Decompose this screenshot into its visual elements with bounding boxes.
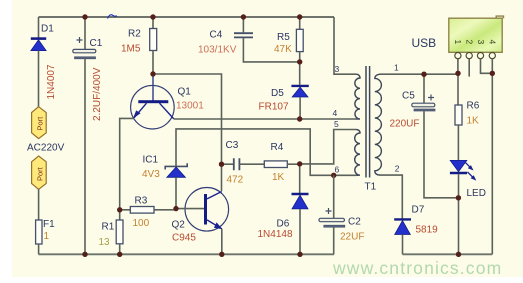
junction dot C3 tap xyxy=(219,162,224,167)
label AC220V xyxy=(27,143,65,154)
svg-text:C3: C3 xyxy=(226,140,239,151)
resistor R4 xyxy=(264,161,299,168)
junction dot LED bottom xyxy=(456,195,461,200)
svg-text:R3: R3 xyxy=(135,196,148,207)
svg-text:1N4148: 1N4148 xyxy=(258,229,293,240)
svg-text:C945: C945 xyxy=(172,233,196,244)
value 22UF xyxy=(340,232,364,243)
junction dot R3 right IC1 xyxy=(173,206,178,211)
value 472 xyxy=(227,175,244,186)
pin label 5 xyxy=(334,119,339,129)
wire top rail xyxy=(39,16,335,18)
label LED xyxy=(467,188,486,199)
label USB xyxy=(412,36,437,50)
svg-text:4: 4 xyxy=(333,108,338,118)
wire F1 to rail corner xyxy=(38,244,40,254)
pin label 6 xyxy=(335,165,340,175)
wire R6 top lead xyxy=(457,73,459,105)
svg-text:4V3: 4V3 xyxy=(142,169,160,180)
label Q2 xyxy=(172,220,186,231)
svg-text:13001: 13001 xyxy=(176,101,204,112)
svg-text:1K: 1K xyxy=(272,172,285,183)
USB pin circle 3 xyxy=(477,53,483,59)
capacitor C2 xyxy=(319,208,345,227)
resistor R1 xyxy=(116,220,123,244)
junction dot R4 right xyxy=(297,161,302,166)
value 1N4148 xyxy=(258,229,293,240)
resistor R6 xyxy=(455,105,462,125)
svg-text:R1: R1 xyxy=(102,222,115,233)
svg-text:C2: C2 xyxy=(348,217,361,228)
resistor R3 xyxy=(120,207,176,214)
svg-text:4: 4 xyxy=(488,40,498,45)
value 2.2UF/400V (rotated) xyxy=(92,67,103,121)
transformer T1 core xyxy=(366,66,370,178)
label R5 xyxy=(277,32,290,43)
value 4V3 xyxy=(142,169,160,180)
wire Q1 base node to Q2 collector column xyxy=(153,74,222,191)
value 103/1KV xyxy=(198,44,237,55)
transistor Q2 xyxy=(176,188,229,232)
USB pin digit 4 xyxy=(488,40,498,45)
zener IC1 xyxy=(165,163,187,177)
label IC1 xyxy=(143,155,159,166)
svg-text:3: 3 xyxy=(335,64,340,74)
wire USB pin1 lead xyxy=(457,59,459,74)
USB pin circle 4 xyxy=(489,53,495,59)
wire R4 node to transformer pin 5 xyxy=(300,130,357,164)
junction dot R2 top xyxy=(150,14,155,19)
wire USB pin3 to pin4 xyxy=(481,59,493,74)
wire IC1 top to pin6 row xyxy=(176,129,357,175)
svg-text:C4: C4 xyxy=(210,30,223,41)
svg-text:LED: LED xyxy=(467,188,486,199)
USB pin circle 2 xyxy=(466,53,472,59)
svg-text:D6: D6 xyxy=(277,219,290,230)
svg-text:5819: 5819 xyxy=(416,225,439,236)
label R4 xyxy=(271,142,284,153)
diode D5 xyxy=(291,62,308,119)
capacitor C4 xyxy=(234,17,300,62)
value 13 xyxy=(99,237,111,248)
svg-text:1: 1 xyxy=(44,231,50,242)
junction dot C5 top xyxy=(421,72,426,77)
junction dot rail R1 xyxy=(117,252,122,257)
svg-text:1N4007: 1N4007 xyxy=(46,64,57,99)
wire pin4 row (Q1 collector to transformer pin 4) xyxy=(174,118,357,120)
value 1M5 xyxy=(121,43,141,54)
wire D1 to port1 xyxy=(38,51,40,107)
svg-text:R6: R6 xyxy=(467,101,480,112)
junction dot D5 bottom pin4 row xyxy=(297,116,302,121)
svg-text:1: 1 xyxy=(394,63,399,73)
wire USB pin4 lead xyxy=(491,59,493,74)
value 220UF xyxy=(390,119,420,130)
svg-text:R4: R4 xyxy=(271,142,284,153)
wire secondary bottom rail xyxy=(403,253,493,255)
port AC N xyxy=(32,156,47,189)
wire Q2 emitter to rail xyxy=(221,229,223,254)
value C945 xyxy=(172,233,196,244)
value 1 xyxy=(44,231,50,242)
svg-text:220UF: 220UF xyxy=(390,119,420,130)
wire C2 column xyxy=(333,175,335,218)
svg-text:103/1KV: 103/1KV xyxy=(198,44,237,55)
wire R6 to LED xyxy=(457,125,459,160)
junction dot pin6 node xyxy=(331,173,336,178)
diode D7 xyxy=(394,219,411,254)
svg-text:C1: C1 xyxy=(90,38,103,49)
label C2 xyxy=(348,217,361,228)
wire R2 to Q1 base node xyxy=(152,51,154,75)
watermark www.cntronics.com xyxy=(332,258,502,278)
pin label 4 xyxy=(333,108,338,118)
svg-text:D7: D7 xyxy=(412,205,425,216)
USB pin digit 2 xyxy=(465,40,475,45)
wire C1 bottom lead xyxy=(84,59,86,255)
value 1K xyxy=(272,172,285,183)
label D1 xyxy=(41,24,54,35)
svg-text:T1: T1 xyxy=(365,182,377,193)
wire C1 top lead xyxy=(84,17,86,49)
label C5 xyxy=(402,91,415,102)
label R6 xyxy=(467,101,480,112)
svg-text:1M5: 1M5 xyxy=(121,43,141,54)
junction dot R3 left xyxy=(117,207,122,212)
pin label 2 xyxy=(395,164,400,174)
svg-text:FR107: FR107 xyxy=(259,102,289,113)
svg-text:1K: 1K xyxy=(467,116,480,127)
LED xyxy=(450,160,476,180)
junction dot rail LED xyxy=(456,252,461,257)
svg-text:D1: D1 xyxy=(41,24,54,35)
wire transformer pin 3 xyxy=(334,17,357,74)
resistor R5 xyxy=(296,17,303,62)
label Q1 xyxy=(178,87,192,98)
USB pin digit 3 xyxy=(476,40,486,45)
svg-text:D5: D5 xyxy=(271,88,284,99)
junction dot D5 top xyxy=(297,59,302,64)
svg-text:2: 2 xyxy=(465,40,475,45)
svg-text:Q1: Q1 xyxy=(178,87,192,98)
junction dot R5 top xyxy=(297,14,302,19)
svg-text:USB: USB xyxy=(412,36,437,50)
capacitor C3 xyxy=(222,158,265,170)
svg-text:Q2: Q2 xyxy=(172,220,186,231)
transformer T1 secondary winding xyxy=(375,74,382,175)
wire C2 bottom lead xyxy=(333,227,335,254)
svg-text:R5: R5 xyxy=(277,32,290,43)
label C1 xyxy=(90,38,103,49)
fuse F1 xyxy=(36,220,42,244)
port AC L xyxy=(32,107,47,139)
svg-text:13: 13 xyxy=(99,237,111,248)
value 13001 xyxy=(176,101,204,112)
wire pin2 row to D7 xyxy=(380,175,403,219)
svg-text:2.2UF/400V: 2.2UF/400V xyxy=(92,67,103,121)
junction dot USB pin4 node xyxy=(490,71,495,76)
value 5819 xyxy=(416,225,439,236)
wire left column top (top rail to D1) xyxy=(38,17,40,38)
USB pin digit 1 xyxy=(453,40,463,45)
svg-text:5: 5 xyxy=(334,119,339,129)
svg-text:6: 6 xyxy=(335,165,340,175)
svg-text:www.cntronics.com: www.cntronics.com xyxy=(332,258,502,278)
transformer T1 feedback winding xyxy=(355,130,360,176)
label R3 xyxy=(135,196,148,207)
wire R1 bottom lead xyxy=(119,244,121,255)
stray blue mark on top rail xyxy=(108,15,118,19)
wire port2 to F1 xyxy=(38,189,40,220)
svg-text:Port: Port xyxy=(35,166,44,181)
wire R3 node to R1 xyxy=(119,210,121,220)
svg-text:2: 2 xyxy=(395,164,400,174)
label D5 xyxy=(271,88,284,99)
junction dot rail C1 xyxy=(82,252,87,257)
junction dot Q1 base xyxy=(150,71,155,76)
svg-text:100: 100 xyxy=(133,218,150,229)
capacitor C1 xyxy=(73,37,96,59)
junction dot rail Q2 xyxy=(219,252,224,257)
value 1K xyxy=(467,116,480,127)
svg-text:47K: 47K xyxy=(274,44,292,55)
label D6 xyxy=(277,219,290,230)
svg-text:AC220V: AC220V xyxy=(27,143,65,154)
resistor R2 xyxy=(150,29,157,51)
value 100 xyxy=(133,218,150,229)
wire LED to rail xyxy=(458,174,460,254)
svg-text:1: 1 xyxy=(453,40,463,45)
transistor Q1 xyxy=(131,85,175,129)
junction dot C1 top xyxy=(82,14,87,19)
transformer T1 primary winding xyxy=(355,74,360,119)
wire right ground rail xyxy=(491,73,493,254)
label R2 xyxy=(128,29,141,40)
svg-text:C5: C5 xyxy=(402,91,415,102)
label R1 xyxy=(102,222,115,233)
USB connector body xyxy=(449,16,504,52)
svg-text:3: 3 xyxy=(476,40,486,45)
junction dot USB pin1 node xyxy=(455,71,460,76)
wire R2 top lead xyxy=(152,17,154,29)
wire +5V row (pin1 to USB) xyxy=(380,73,458,75)
svg-text:22UF: 22UF xyxy=(340,232,364,243)
label F1 xyxy=(43,219,55,230)
pin label 3 xyxy=(335,64,340,74)
svg-text:R2: R2 xyxy=(128,29,141,40)
label C4 xyxy=(210,30,223,41)
diode D1 xyxy=(31,39,46,51)
wire USB pin2 stub xyxy=(468,59,470,77)
pin label 1 xyxy=(394,63,399,73)
USB pin circle 1 xyxy=(455,53,461,59)
capacitor C5 xyxy=(412,74,459,198)
wire primary bottom rail xyxy=(39,253,335,255)
wire Q1 emitter to R3 node xyxy=(120,118,134,209)
wire Q1 base entry xyxy=(152,74,154,101)
label C3 xyxy=(226,140,239,151)
label D7 xyxy=(412,205,425,216)
diode D6 xyxy=(292,164,309,254)
svg-text:472: 472 xyxy=(227,175,244,186)
svg-text:F1: F1 xyxy=(43,219,55,230)
svg-text:IC1: IC1 xyxy=(143,155,159,166)
junction dot rail D6 xyxy=(297,252,302,257)
value 1N4007 (rotated) xyxy=(46,64,57,99)
wire IC1 bottom lead xyxy=(175,177,177,208)
label T1 xyxy=(365,182,377,193)
junction dot C4 top xyxy=(241,14,246,19)
value 47K xyxy=(274,44,292,55)
value FR107 xyxy=(259,102,289,113)
svg-text:Port: Port xyxy=(35,116,44,131)
